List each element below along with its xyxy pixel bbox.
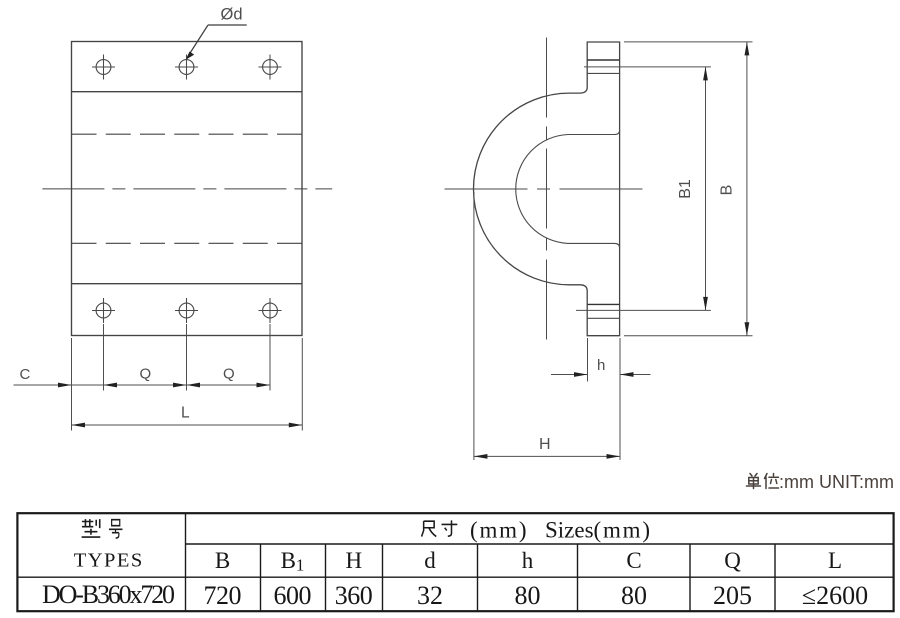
inner bore outline <box>516 130 620 248</box>
svg-text:C: C <box>626 548 641 573</box>
svg-text:B: B <box>719 185 736 196</box>
svg-text:80: 80 <box>621 581 647 610</box>
arrows of C and Q dims <box>58 383 72 388</box>
svg-text:Sizes: Sizes <box>545 518 594 543</box>
svg-text:B1: B1 <box>281 548 305 575</box>
svg-text:360: 360 <box>335 581 373 610</box>
side profile outline <box>473 42 619 336</box>
hole top-middle <box>175 55 198 80</box>
h dim line right tail <box>620 374 651 376</box>
B dimension line <box>746 42 748 336</box>
svg-text:TYPES: TYPES <box>74 550 143 572</box>
h extension left <box>587 338 589 382</box>
svg-text:L: L <box>181 405 190 422</box>
top flange groove line 2 <box>587 72 619 74</box>
dimension H <box>474 192 620 460</box>
svg-text:d: d <box>424 548 436 573</box>
svg-text:≤2600: ≤2600 <box>802 581 868 610</box>
bottom flange groove line 2 <box>587 317 619 319</box>
leader callout Od <box>186 6 247 60</box>
col divider types <box>185 513 187 611</box>
bottom flange inner edge line <box>72 283 303 285</box>
svg-text:B: B <box>215 548 230 573</box>
glyph xing <box>82 519 101 537</box>
header cell: xinghao TYPES <box>82 519 123 538</box>
glyph hao <box>109 520 123 538</box>
dimension B <box>624 42 753 336</box>
hole bottom-right <box>259 298 282 323</box>
svg-text:h: h <box>522 548 534 573</box>
svg-text:600: 600 <box>274 581 312 610</box>
dimension B1 <box>576 67 711 311</box>
bottom flange groove line <box>587 303 619 305</box>
extension line hole2 <box>186 324 188 391</box>
horizontal centerline front view <box>42 188 332 190</box>
row divider under sizes header <box>186 543 894 545</box>
hole bottom-middle <box>175 298 198 323</box>
svg-text:DO-B360x720: DO-B360x720 <box>42 580 175 609</box>
svg-text:Ød: Ød <box>221 6 243 24</box>
B1 extension top <box>584 66 711 68</box>
top flange inner edge line <box>72 91 303 93</box>
dimension C Q Q line <box>14 324 271 431</box>
extension line right plate edge <box>301 338 303 431</box>
extension line hole1 <box>103 324 105 391</box>
h extension right <box>619 338 621 460</box>
svg-text:(mm): (mm) <box>594 518 652 543</box>
hole bottom-left <box>92 298 115 323</box>
svg-text:Q: Q <box>724 548 741 573</box>
svg-text:h: h <box>597 357 605 374</box>
hidden edge dashed line lower <box>72 242 303 244</box>
glyph wei <box>765 474 779 489</box>
glyph cun <box>442 520 458 536</box>
svg-text:32: 32 <box>417 581 443 610</box>
svg-text:80: 80 <box>515 581 541 610</box>
horizontal centerline side view <box>445 188 651 190</box>
hidden edge dashed line upper <box>72 133 303 135</box>
row1 header: chicun (mm) Sizes (mm) <box>422 520 458 536</box>
svg-text:Q: Q <box>223 366 235 383</box>
svg-text:B1: B1 <box>677 179 694 199</box>
row divider above values <box>17 576 893 578</box>
table outer border <box>17 513 893 611</box>
svg-text::mm UNIT:mm: :mm UNIT:mm <box>779 472 894 492</box>
svg-text:(mm): (mm) <box>470 518 528 543</box>
extension line plate left edge <box>71 338 73 431</box>
svg-text:C: C <box>20 366 31 383</box>
dimension h <box>551 338 651 460</box>
svg-text:H: H <box>539 436 551 453</box>
svg-text:205: 205 <box>713 581 752 610</box>
B extension bottom <box>624 335 753 337</box>
top flange groove line dark <box>587 59 619 61</box>
B extension top <box>624 41 753 43</box>
svg-text:Q: Q <box>140 366 152 383</box>
front plate outline <box>72 42 303 336</box>
vertical centerline side view <box>546 38 548 346</box>
h dim line left tail <box>551 374 588 376</box>
bolt holes front view <box>92 55 282 324</box>
column lines <box>260 544 262 611</box>
hole top-right <box>259 55 282 80</box>
glyph dan <box>747 474 761 489</box>
svg-text:720: 720 <box>204 581 242 610</box>
hole top-left <box>92 55 115 80</box>
B1 extension bottom <box>576 309 711 311</box>
svg-text:L: L <box>828 548 842 573</box>
unit note: 单位:mm UNIT:mm <box>747 474 779 489</box>
H extension left <box>473 192 475 460</box>
extension line hole3 <box>269 324 271 391</box>
glyph chi <box>422 521 437 536</box>
dimension L <box>72 338 303 431</box>
B1 dimension line <box>705 67 707 311</box>
svg-text:H: H <box>345 548 362 573</box>
H dimension line <box>474 455 620 457</box>
